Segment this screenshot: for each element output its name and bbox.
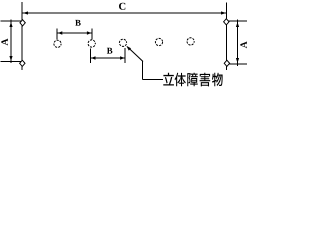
arrowhead leader pointing to circle 3 bbox=[126, 46, 131, 51]
wire B1 left extension line bbox=[56, 29, 58, 40]
wire left edge vertical extension line bbox=[21, 2, 23, 70]
obstacle circle 4 bbox=[155, 38, 162, 45]
arrowhead B1 right bbox=[87, 31, 91, 34]
label B2 bbox=[107, 48, 112, 54]
wire B2 right extension line bbox=[124, 48, 126, 63]
arrowhead A left up bbox=[9, 22, 12, 27]
obstacle circle 1 bbox=[54, 40, 61, 47]
node diamond bottom-left corner bbox=[20, 60, 25, 66]
dimension line B2 bbox=[91, 57, 125, 59]
dimension line A left bbox=[10, 20, 12, 64]
wire top-right horizontal line bbox=[227, 20, 248, 22]
wire B2 left extension line bbox=[89, 49, 91, 64]
dimension line C bbox=[23, 12, 227, 14]
obstacle circle 3 bbox=[119, 39, 126, 46]
wire B1 right extension line bbox=[91, 29, 93, 40]
wire bottom-right horizontal line bbox=[227, 63, 248, 65]
node diamond top-right corner bbox=[224, 19, 229, 25]
dimension line A right bbox=[237, 20, 239, 67]
label A left (rotated) bbox=[1, 39, 7, 46]
wire right edge vertical extension line bbox=[226, 3, 228, 71]
arrowhead A right up bbox=[236, 22, 239, 27]
label A right (rotated) bbox=[240, 41, 246, 48]
arrowhead C left bbox=[23, 11, 28, 14]
obstacle circle 2 bbox=[88, 40, 95, 47]
wire leader horizontal segment bbox=[143, 79, 163, 81]
arrowhead C right bbox=[221, 11, 226, 14]
node diamond bottom-right corner bbox=[224, 60, 229, 66]
wire top-left horizontal line bbox=[1, 20, 23, 22]
wire leader vertical segment bbox=[142, 61, 144, 80]
arrowhead A right down bbox=[236, 58, 239, 63]
arrowhead B2 right bbox=[120, 56, 124, 59]
label B1 bbox=[75, 20, 80, 26]
arrowhead B2 left bbox=[91, 56, 95, 59]
wire bottom-left horizontal line bbox=[1, 61, 23, 63]
label C bbox=[119, 3, 125, 10]
label 立体障害物 (solid obstacle) bbox=[163, 73, 222, 87]
dimension line B1 bbox=[58, 32, 92, 34]
node diamond top-left corner bbox=[20, 20, 25, 26]
arrowhead A left down bbox=[9, 56, 12, 61]
wire leader diagonal segment bbox=[127, 47, 143, 62]
obstacle circle 5 bbox=[187, 38, 194, 45]
arrowhead B1 left bbox=[58, 31, 62, 34]
